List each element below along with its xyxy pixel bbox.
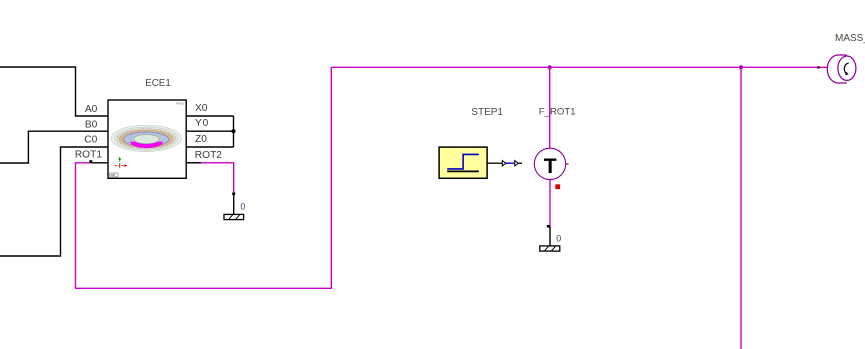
wire X0 pin [186,115,233,117]
pin stub ROT2 (black) [186,162,201,164]
svg-text:ECE1: ECE1 [145,78,171,89]
svg-text:T: T [544,155,557,178]
motor icon (ECE model) [111,125,181,151]
wire net B0 (left input) [0,131,108,163]
svg-text:STEP1: STEP1 [471,107,503,118]
pin stub ROT1 (black) [91,162,108,164]
wire net C0 (left input) [0,147,108,256]
pin tick F_ROT1 right [566,163,569,165]
signal wire (blue) [506,162,515,164]
arrowhead STEP1 output [502,161,506,166]
svg-text:0: 0 [240,202,245,212]
ground stub GND1 [233,194,235,215]
svg-text:0: 0 [556,234,561,244]
svg-text:X0: X0 [195,103,208,114]
torque source F_ROT1 circle [534,148,565,179]
wire rotational bus top (magenta) [331,66,828,68]
svg-text:Ansys: Ansys [176,102,185,106]
svg-text:ROT2: ROT2 [195,150,223,161]
axis marker [115,157,128,169]
wire F_ROT1 bottom (magenta) [549,180,551,227]
junction dot Y0 [231,129,235,133]
svg-text:C0: C0 [84,135,97,146]
junction dot right branch [739,65,743,69]
pin tick ROT2 end [232,193,235,196]
rotational mass MASS_ROT1 [827,55,856,83]
base annotation box [110,173,119,177]
junction dot F_ROT1 [548,65,552,69]
wire F_ROT1 top (magenta) [549,67,551,148]
pin tick ROT1 end [89,160,92,163]
svg-text:ROT1: ROT1 [75,150,103,161]
svg-text:Z0: Z0 [195,134,207,145]
pin tick MASS [817,66,820,68]
waveform baseline [447,170,479,172]
pin tick F_ROT1 bottom [547,225,550,228]
wire net A0 (left input) [0,67,108,116]
wire ROT1 loop (magenta) [76,67,332,288]
wire Y0 pin [186,130,233,132]
wire right vertical branch (magenta) [740,67,742,349]
wire ROT2 to ground (magenta) [186,163,234,194]
ground stub GND2 [549,226,551,246]
pin stub F_ROT1 input [518,162,522,164]
ground symbol GND2 [540,246,560,251]
block ECE1 body [108,100,186,178]
red marker [555,184,560,189]
ground symbol GND1 [224,214,244,219]
wire Z0 pin [186,146,233,148]
svg-text:B0: B0 [85,119,98,130]
step waveform [447,154,479,169]
svg-text:Y0: Y0 [195,118,209,129]
svg-text:F_ROT1: F_ROT1 [539,106,576,117]
source STEP1 body [439,147,487,178]
svg-text:MASS_ROT1: MASS_ROT1 [835,33,865,44]
wire phase short vertical [233,116,235,147]
pin stub STEP1 output [487,162,502,164]
svg-text:A0: A0 [85,104,98,115]
arrowhead F_ROT1 input [515,161,519,166]
